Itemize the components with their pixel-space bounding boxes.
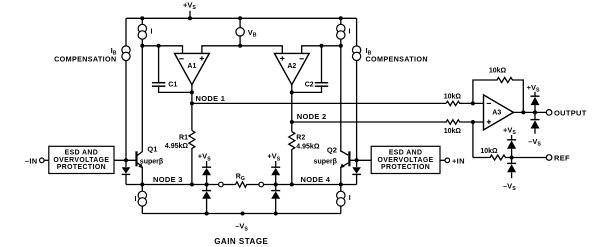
- wire: A2 output vertical: [291, 85, 293, 132]
- wire: right outer vertical lower: [356, 61, 358, 161]
- junction dot C2 bottom at A2 output: [290, 90, 294, 94]
- wire: NODE 1 horizontal: [192, 102, 446, 104]
- resistor R1: [189, 131, 195, 185]
- wire: A3 output: [514, 111, 547, 113]
- svg-text:4.95kΩ: 4.95kΩ: [165, 143, 189, 150]
- svg-text:C2: C2: [305, 81, 314, 88]
- svg-text:OVERVOLTAGE: OVERVOLTAGE: [378, 157, 434, 164]
- svg-text:I: I: [135, 196, 137, 203]
- svg-text:COMPENSATION: COMPENSATION: [366, 55, 428, 64]
- junction dot C1 top: [157, 44, 161, 48]
- svg-text:+IN: +IN: [452, 157, 465, 166]
- svg-text:superβ: superβ: [314, 158, 338, 165]
- junction dot output clamp diodes: [533, 110, 537, 114]
- junction dot Q2 emitter / I source: [339, 183, 343, 187]
- wire: A3 plus input to REF network: [472, 122, 474, 158]
- junction dot REF clamp diodes: [510, 156, 514, 160]
- A1 non-inverting input sign: [200, 56, 204, 60]
- junction dot R1 bottom: [190, 183, 194, 187]
- junction dot A3 non-inverting input / REF tap: [471, 120, 475, 124]
- svg-text:I: I: [151, 29, 153, 36]
- svg-text:A2: A2: [287, 63, 296, 70]
- svg-text:A3: A3: [492, 109, 501, 116]
- wire: net segment A2 inverting: [302, 46, 341, 54]
- wire: NODE 3 horizontal: [126, 184, 219, 186]
- junction dot Q1 base / protection diode: [124, 158, 128, 162]
- svg-text:Q1: Q1: [147, 144, 157, 153]
- junction dot feedback at output: [521, 110, 525, 114]
- diode base-emitter Q2: [356, 160, 358, 167]
- op-amp A1: [175, 53, 210, 84]
- wire: net segment VB to both + inputs: [202, 46, 282, 54]
- wire: left outer vertical: [125, 18, 127, 46]
- wire: +VS top rail: [126, 17, 357, 19]
- svg-text:NODE 2: NODE 2: [297, 112, 327, 121]
- svg-text:A1: A1: [187, 63, 196, 70]
- terminal OUTPUT: [546, 110, 552, 116]
- svg-text:NODE 1: NODE 1: [196, 94, 226, 103]
- svg-text:I: I: [349, 195, 351, 202]
- svg-text:10kΩ: 10kΩ: [444, 128, 462, 135]
- svg-text:4.95kΩ: 4.95kΩ: [296, 144, 320, 151]
- junction dot under +VS: [188, 16, 192, 20]
- svg-text:10kΩ: 10kΩ: [480, 148, 498, 155]
- junction dot C2 top: [320, 44, 324, 48]
- junction dot R2 bottom: [290, 183, 294, 187]
- svg-text:I: I: [349, 29, 351, 36]
- svg-text:COMPENSATION: COMPENSATION: [54, 55, 116, 64]
- junction dot VB bottom: [238, 44, 242, 48]
- svg-text:ESD AND: ESD AND: [389, 150, 423, 157]
- svg-text:Q2: Q2: [327, 145, 337, 154]
- wire: left outer vertical lower: [125, 61, 127, 161]
- terminal RG left: [219, 182, 224, 187]
- current source I left: [141, 18, 143, 24]
- wire: base wire left: [114, 159, 136, 161]
- svg-text:R1: R1: [179, 134, 188, 141]
- svg-text:10kΩ: 10kΩ: [444, 93, 462, 100]
- svg-text:superβ: superβ: [140, 158, 164, 165]
- svg-text:GAIN STAGE: GAIN STAGE: [214, 237, 268, 246]
- svg-text:OUTPUT: OUTPUT: [554, 108, 587, 117]
- svg-text:–IN: –IN: [25, 157, 38, 166]
- wire: NODE 4 horizontal: [264, 184, 357, 186]
- svg-text:REF: REF: [554, 154, 570, 163]
- A3 inverting input sign: [487, 102, 491, 104]
- svg-text:OVERVOLTAGE: OVERVOLTAGE: [53, 157, 109, 164]
- A1 inverting input sign: [179, 58, 183, 60]
- capacitor C2: [321, 46, 323, 82]
- resistor 10k REF: [473, 155, 546, 160]
- diode base-emitter Q1: [125, 160, 127, 167]
- svg-text:C1: C1: [168, 81, 177, 88]
- svg-text:10kΩ: 10kΩ: [489, 68, 507, 75]
- junction dot I source left top: [140, 16, 144, 20]
- svg-text:R2: R2: [296, 134, 305, 141]
- junction dot A3 inverting input / feedback: [471, 101, 475, 105]
- wire: base wire right: [350, 159, 371, 161]
- transistor Q1: [135, 151, 137, 166]
- junction dot NODE 2: [290, 120, 294, 124]
- junction dot Q1 emitter / I source: [140, 183, 144, 187]
- junction dot I-source / Q2 collector line: [339, 44, 343, 48]
- current source I right: [340, 18, 342, 24]
- capacitor C1: [158, 46, 160, 82]
- wire: -VS bottom rail: [142, 213, 340, 215]
- svg-text:ESD AND: ESD AND: [65, 150, 99, 157]
- current source IB compensation left: [122, 46, 130, 54]
- junction dot I source right top: [339, 16, 343, 20]
- junction dot VB top: [238, 16, 242, 20]
- resistor R2: [289, 132, 295, 185]
- wire: NODE 2 horizontal: [292, 121, 447, 123]
- A2 non-inverting input sign: [280, 56, 284, 60]
- wire stub under +VS: [189, 11, 191, 18]
- junction dot C1 bottom at A1 output: [190, 90, 194, 94]
- wire: right outer vertical: [356, 18, 358, 46]
- junction dot clamp diodes right: [274, 183, 278, 187]
- junction dot clamp diodes left: [205, 183, 209, 187]
- terminal REF: [546, 155, 552, 161]
- diode clamp REF lower: [511, 158, 513, 164]
- svg-text:PROTECTION: PROTECTION: [57, 164, 106, 171]
- resistor 10k feedback: [473, 78, 523, 113]
- terminal +IN: [440, 159, 445, 161]
- A2 inverting input sign: [300, 58, 304, 60]
- diode clamp output lower: [534, 112, 536, 119]
- junction dot right clamp to -VS rail: [274, 212, 278, 216]
- current source I bottom right: [340, 185, 342, 192]
- current source IB compensation right: [352, 46, 360, 54]
- junction dot Q2 base / protection diode: [355, 158, 359, 162]
- svg-text:NODE 4: NODE 4: [301, 175, 331, 184]
- ESD box left: [49, 146, 114, 173]
- diode clamp gain right lower: [275, 185, 277, 191]
- transistor Q2: [348, 151, 350, 166]
- svg-text:NODE 3: NODE 3: [153, 175, 183, 184]
- wire: net segment A1 inverting: [142, 46, 182, 54]
- current source I bottom left: [141, 185, 143, 192]
- diode clamp gain left lower: [206, 185, 208, 191]
- ESD box right: [371, 146, 440, 173]
- op-amp A3: [484, 95, 514, 130]
- resistor 10k input bottom: [446, 120, 483, 124]
- wire: A1 output vertical: [191, 85, 193, 131]
- junction dot NODE 1: [190, 101, 194, 105]
- op-amp A2: [274, 53, 309, 84]
- terminal RG right: [259, 182, 264, 187]
- junction dot left clamp to -VS rail: [205, 212, 209, 216]
- svg-text:PROTECTION: PROTECTION: [381, 164, 430, 171]
- junction dot -VS label point: [241, 212, 245, 216]
- source VB: [239, 18, 241, 27]
- A3 non-inverting input sign: [487, 120, 491, 124]
- junction dot I-source / Q1 collector line: [140, 44, 144, 48]
- resistor RG: [223, 182, 259, 187]
